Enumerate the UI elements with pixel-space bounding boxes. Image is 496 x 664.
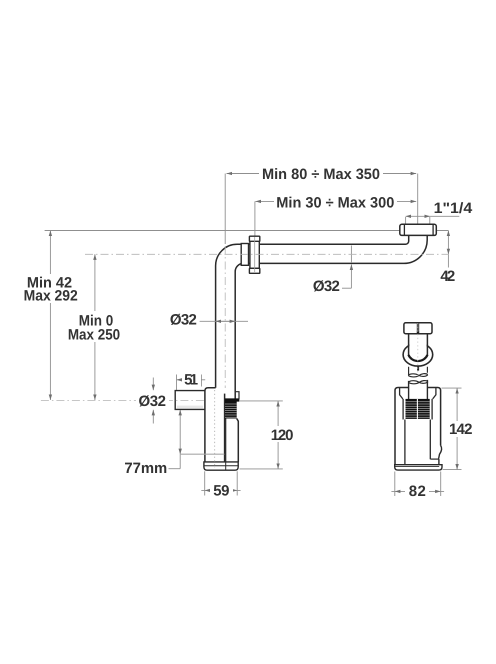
svg-text:142: 142 — [449, 421, 473, 438]
svg-text:82: 82 — [409, 483, 426, 500]
svg-text:120: 120 — [271, 427, 294, 444]
svg-text:77mm: 77mm — [124, 460, 167, 477]
svg-text:42: 42 — [440, 268, 455, 285]
svg-text:Max 292: Max 292 — [24, 287, 78, 304]
svg-text:Min 30 ÷ Max 300: Min 30 ÷ Max 300 — [276, 194, 394, 211]
svg-text:Min 80 ÷ Max 350: Min 80 ÷ Max 350 — [262, 166, 380, 183]
svg-text:Ø32: Ø32 — [170, 312, 197, 329]
svg-text:59: 59 — [213, 482, 229, 499]
svg-text:51: 51 — [184, 371, 198, 388]
svg-text:1"1/4: 1"1/4 — [434, 200, 473, 217]
svg-text:Ø32: Ø32 — [313, 278, 340, 295]
svg-text:Max 250: Max 250 — [68, 326, 120, 343]
svg-text:Ø32: Ø32 — [138, 393, 166, 410]
